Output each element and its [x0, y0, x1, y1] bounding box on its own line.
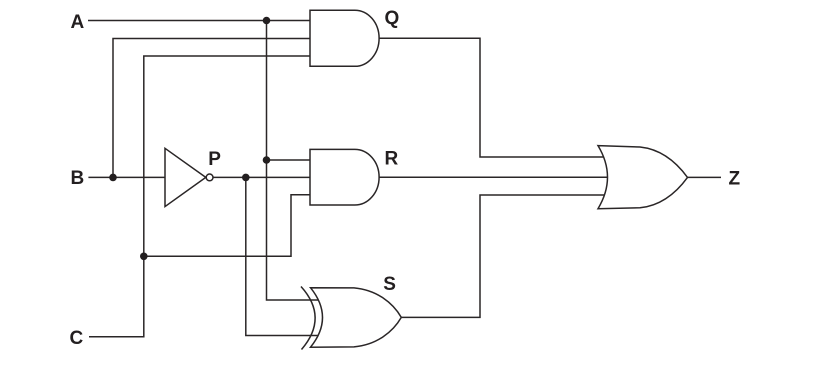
- wire input A to AND1: [88, 20, 310, 22]
- junction dot A-branch at AND2 input 1: [263, 156, 271, 164]
- wire C net: C input up to AND1 input 3: [89, 56, 310, 337]
- svg-text:Q: Q: [385, 8, 400, 29]
- svg-text:B: B: [71, 168, 85, 189]
- wire node R: AND2 output to OR input 2: [379, 176, 616, 178]
- wire node S: XOR output to OR input 3: [401, 195, 613, 317]
- wire input B to inverter: [88, 176, 165, 178]
- xor-gate XOR1 front input arc: [301, 287, 315, 350]
- wire B-branch up to AND1 input 2: [113, 39, 310, 178]
- svg-text:Z: Z: [729, 169, 741, 190]
- svg-text:S: S: [383, 274, 396, 295]
- inverter U1 bubble: [206, 174, 213, 181]
- svg-text:P: P: [208, 149, 221, 170]
- wire node Z: OR output: [688, 176, 722, 178]
- svg-text:A: A: [71, 12, 85, 33]
- svg-text:R: R: [385, 149, 399, 170]
- svg-text:C: C: [70, 328, 84, 349]
- junction dot on B line: [109, 174, 117, 182]
- xor-gate XOR1 body (output S): [311, 288, 402, 348]
- wire A-branch down: node to AND2 input 1 and XOR input 1: [267, 21, 331, 301]
- wire node P: inverter output to AND2 input 2: [213, 176, 310, 178]
- or-gate OR1 (output Z): [598, 146, 688, 209]
- junction dot on P line: [242, 174, 250, 182]
- junction dot on A line: [263, 17, 271, 25]
- wire C-branch to AND2 input 3: [144, 195, 310, 256]
- junction dot on C net: [140, 252, 148, 260]
- wire A-branch stub to AND2 input 1: [267, 159, 311, 161]
- inverter U1 triangle (input B, output P): [165, 148, 206, 206]
- and-gate AND1 (output Q): [310, 10, 379, 66]
- wire P-branch down to XOR input 2: [246, 177, 330, 335]
- wire node Q: AND1 output to OR input 1: [379, 38, 612, 157]
- and-gate AND2 (output R): [310, 149, 379, 205]
